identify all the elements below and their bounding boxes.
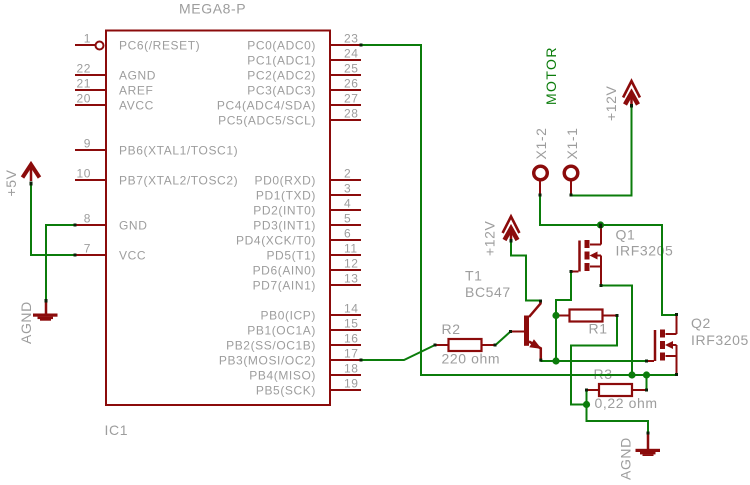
- svg-text:+5V: +5V: [3, 169, 19, 196]
- svg-text:PD5(T1): PD5(T1): [266, 248, 316, 262]
- svg-text:PB4(MISO): PB4(MISO): [249, 368, 316, 382]
- svg-text:Q2: Q2: [691, 315, 711, 331]
- svg-text:28: 28: [344, 106, 359, 120]
- svg-text:PC6(/RESET): PC6(/RESET): [119, 38, 200, 52]
- svg-text:+12V: +12V: [482, 220, 498, 256]
- svg-text:BC547: BC547: [465, 284, 511, 300]
- svg-text:X1-1: X1-1: [564, 128, 580, 160]
- svg-text:1: 1: [84, 31, 91, 45]
- svg-text:PC3(ADC3): PC3(ADC3): [247, 83, 316, 97]
- svg-text:18: 18: [344, 361, 359, 375]
- svg-text:5: 5: [344, 211, 351, 225]
- svg-text:16: 16: [344, 331, 359, 345]
- svg-text:IC1: IC1: [105, 422, 129, 438]
- svg-text:22: 22: [76, 61, 91, 75]
- svg-text:8: 8: [84, 211, 91, 225]
- svg-text:PC4(ADC4/SDA): PC4(ADC4/SDA): [217, 98, 316, 112]
- svg-text:MEGA8-P: MEGA8-P: [179, 1, 246, 17]
- svg-text:PB1(OC1A): PB1(OC1A): [247, 323, 316, 337]
- svg-text:PD1(TXD): PD1(TXD): [256, 188, 316, 202]
- svg-text:PC2(ADC2): PC2(ADC2): [247, 68, 316, 82]
- svg-text:220 ohm: 220 ohm: [442, 351, 501, 367]
- svg-text:26: 26: [344, 76, 359, 90]
- svg-text:AREF: AREF: [119, 83, 153, 97]
- svg-text:PD6(AIN0): PD6(AIN0): [253, 263, 316, 277]
- svg-text:AGND: AGND: [618, 437, 634, 480]
- svg-text:PB6(XTAL1/TOSC1): PB6(XTAL1/TOSC1): [119, 143, 238, 157]
- svg-text:AVCC: AVCC: [119, 98, 154, 112]
- svg-text:3: 3: [344, 181, 351, 195]
- svg-text:PC1(ADC1): PC1(ADC1): [247, 53, 316, 67]
- svg-text:4: 4: [344, 196, 351, 210]
- svg-text:R2: R2: [442, 321, 461, 337]
- svg-text:PD7(AIN1): PD7(AIN1): [253, 278, 316, 292]
- svg-text:Q1: Q1: [616, 227, 636, 243]
- svg-text:PB3(MOSI/OC2): PB3(MOSI/OC2): [219, 353, 316, 367]
- svg-text:20: 20: [76, 91, 91, 105]
- svg-text:6: 6: [344, 226, 351, 240]
- svg-text:MOTOR: MOTOR: [543, 46, 559, 105]
- svg-text:25: 25: [344, 61, 359, 75]
- svg-text:PB7(XTAL2/TOSC2): PB7(XTAL2/TOSC2): [119, 173, 238, 187]
- svg-text:PD3(INT1): PD3(INT1): [253, 218, 316, 232]
- svg-text:R1: R1: [589, 321, 608, 337]
- svg-text:11: 11: [344, 241, 358, 255]
- svg-text:7: 7: [84, 241, 91, 255]
- svg-text:X1-2: X1-2: [533, 128, 549, 160]
- svg-text:12: 12: [344, 256, 359, 270]
- svg-text:AGND: AGND: [18, 301, 34, 344]
- svg-text:PB5(SCK): PB5(SCK): [256, 383, 316, 397]
- svg-text:21: 21: [76, 76, 91, 90]
- svg-text:IRF3205: IRF3205: [616, 243, 674, 259]
- svg-text:0,22 ohm: 0,22 ohm: [595, 395, 658, 411]
- svg-text:27: 27: [344, 91, 359, 105]
- svg-text:PC5(ADC5/SCL): PC5(ADC5/SCL): [218, 113, 316, 127]
- svg-text:24: 24: [344, 46, 359, 60]
- svg-text:IRF3205: IRF3205: [691, 332, 749, 348]
- svg-text:T1: T1: [465, 268, 483, 284]
- svg-text:PB0(ICP): PB0(ICP): [261, 308, 316, 322]
- svg-text:PB2(SS/OC1B): PB2(SS/OC1B): [226, 338, 316, 352]
- svg-text:2: 2: [344, 166, 351, 180]
- svg-text:+12V: +12V: [603, 85, 619, 121]
- svg-text:10: 10: [76, 166, 91, 180]
- svg-text:9: 9: [84, 136, 91, 150]
- svg-text:PC0(ADC0): PC0(ADC0): [247, 38, 316, 52]
- svg-text:PD4(XCK/T0): PD4(XCK/T0): [236, 233, 316, 247]
- svg-text:13: 13: [344, 271, 359, 285]
- svg-text:19: 19: [344, 376, 359, 390]
- svg-text:GND: GND: [119, 218, 147, 232]
- svg-text:23: 23: [344, 31, 359, 45]
- svg-text:15: 15: [344, 316, 359, 330]
- svg-text:17: 17: [344, 346, 359, 360]
- svg-text:AGND: AGND: [119, 68, 156, 82]
- svg-text:14: 14: [344, 301, 359, 315]
- svg-text:PD0(RXD): PD0(RXD): [255, 173, 316, 187]
- svg-text:VCC: VCC: [119, 248, 146, 262]
- svg-text:PD2(INT0): PD2(INT0): [253, 203, 316, 217]
